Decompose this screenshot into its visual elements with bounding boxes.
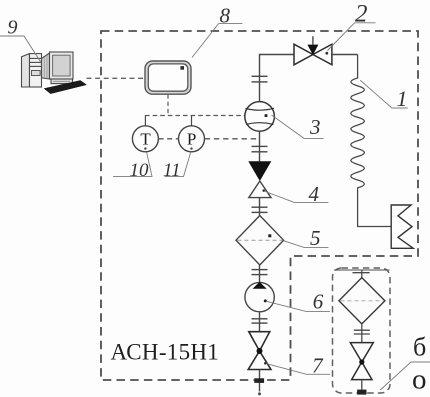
svg-text:1: 1 — [397, 86, 408, 111]
flange pair — [354, 330, 370, 334]
drain pipe below valve 7 — [259, 370, 261, 392]
main enclosure dashed border (L-shape) — [101, 31, 418, 380]
dashed bus line to flow meter — [145, 115, 245, 117]
sampling unit internals — [334, 270, 390, 278]
dashed link P to pipe — [205, 138, 258, 140]
leader line 8 — [192, 24, 242, 58]
svg-text:АСН-15Н1: АСН-15Н1 — [111, 339, 220, 364]
svg-text:4: 4 — [309, 182, 320, 206]
sampling drain — [361, 380, 363, 391]
dashed stem from display 8 — [167, 95, 169, 116]
svg-text:11: 11 — [163, 160, 181, 181]
leader line 9 — [0, 36, 41, 63]
flow meter 3 — [245, 102, 275, 132]
svg-text:2: 2 — [355, 1, 368, 28]
dashed signal line computer to display — [87, 77, 146, 79]
svg-text:6: 6 — [313, 290, 324, 314]
flange pair — [252, 146, 268, 151]
dashed link T to P — [159, 138, 179, 140]
tank heat-exchanger bracket — [391, 205, 413, 248]
pipe filter to pump — [259, 265, 261, 283]
svg-text:8: 8 — [220, 4, 231, 28]
leader line 5 — [284, 241, 329, 248]
sensor P (11) — [179, 126, 205, 152]
leader line 1 — [360, 80, 408, 108]
display unit 8 — [145, 61, 191, 94]
pipe: valve2 left leg down to flow meter — [260, 55, 295, 102]
svg-text:3: 3 — [309, 115, 321, 139]
svg-text:10: 10 — [130, 160, 150, 181]
pipe pump to valve 7 — [259, 312, 261, 332]
flange pair — [252, 76, 268, 82]
leader line 10 — [113, 152, 152, 176]
sampling valve — [350, 343, 373, 380]
leader line 7 — [266, 364, 330, 375]
pipe valve 4 to filter — [259, 198, 261, 216]
flange pair — [252, 270, 268, 275]
filter 5 — [236, 216, 284, 266]
leader line 2 — [328, 23, 376, 51]
leader line 11 — [164, 152, 190, 177]
sampling filter — [339, 278, 385, 324]
svg-text:б: б — [413, 333, 426, 362]
svg-text:5: 5 — [310, 226, 321, 250]
leader line 4 — [264, 191, 328, 202]
svg-text:9: 9 — [8, 16, 18, 38]
flange pair — [252, 319, 268, 323]
pump 6 — [245, 282, 274, 312]
leader line 6 — [266, 301, 330, 311]
sampling unit dashed box — [333, 268, 391, 393]
drop to sensor P — [191, 116, 193, 127]
svg-text:Т: Т — [140, 130, 151, 149]
svg-text:Р: Р — [187, 130, 196, 149]
control valve 2 — [294, 36, 332, 65]
drop to sensor T — [144, 116, 146, 127]
heater coil 1 — [351, 55, 391, 227]
check valve 4 — [248, 161, 271, 181]
shutoff valve 7 — [248, 332, 271, 370]
keyboard of computer 9 — [45, 81, 87, 94]
pipe flow meter to valve 4 — [259, 131, 261, 161]
leader line 3 — [272, 115, 324, 138]
computer 9 — [22, 52, 74, 87]
pipe valve 2 to coil — [332, 54, 358, 56]
svg-text:7: 7 — [312, 354, 324, 378]
sensor T (10) — [132, 126, 158, 152]
pipe filter to sampling valve — [361, 324, 363, 343]
svg-text:о: о — [412, 364, 427, 396]
leader line b/o — [380, 362, 430, 390]
flange pair — [252, 207, 268, 212]
